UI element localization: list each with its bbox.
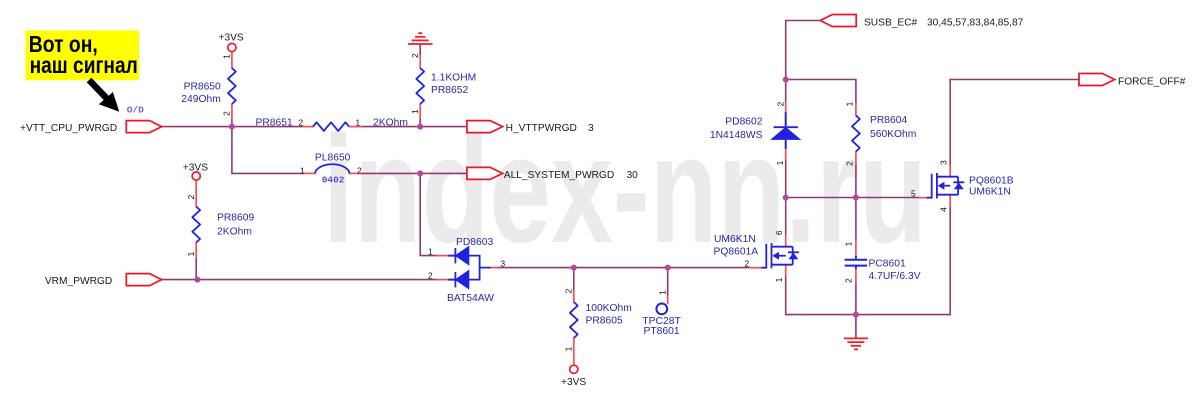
svg-text:PL8650: PL8650 (315, 152, 351, 163)
svg-text:1: 1 (356, 118, 361, 128)
svg-text:PR8651: PR8651 (256, 118, 293, 129)
svg-text:H_VTTPWRGD: H_VTTPWRGD (506, 123, 577, 134)
wire vertical node A down to row2 (232, 127, 304, 174)
svg-text:2: 2 (745, 259, 750, 269)
wire PR8650 bottom stub (231, 119, 233, 127)
resistor R PR8652 body (416, 68, 424, 104)
svg-text:1: 1 (657, 290, 667, 295)
port VRM_PWRGD (126, 274, 161, 286)
node SUSB junction (783, 77, 789, 83)
pin leads PC8601 (855, 241, 857, 256)
svg-text:UM6K1N: UM6K1N (969, 186, 1011, 197)
mosfet PQ8601A body (761, 243, 799, 268)
mosfet PQ8601B body (927, 173, 965, 198)
svg-text:ALL_SYSTEM_PWRGD: ALL_SYSTEM_PWRGD (504, 170, 614, 181)
pin leads PQ8601A (750, 267, 762, 269)
svg-text:2: 2 (410, 53, 420, 58)
svg-text:2KOhm: 2KOhm (217, 227, 252, 238)
testpoint PT8601 circle (656, 304, 667, 315)
resistor R PR8605 body (570, 302, 578, 338)
svg-text:UM6K1N: UM6K1N (714, 234, 756, 245)
svg-text:2: 2 (844, 161, 854, 166)
power +3VS circle (PR8609) (192, 172, 200, 180)
wire PR8604 bottom to node E (855, 164, 857, 198)
svg-text:30,45,57,83,84,85,87: 30,45,57,83,84,85,87 (927, 18, 1024, 29)
svg-text:1.1KOHM: 1.1KOHM (431, 73, 476, 84)
svg-text:SUSB_EC#: SUSB_EC# (864, 18, 918, 29)
svg-text:+3VS: +3VS (561, 377, 586, 388)
pin leads PR8651 (303, 126, 313, 128)
svg-text:1: 1 (410, 109, 420, 114)
svg-text:1: 1 (222, 54, 232, 59)
pin leads PQ8601B (920, 197, 927, 199)
pin leads PR8605 (573, 291, 575, 303)
capacitor PC8601 plates (845, 260, 867, 266)
wire TPC stub (667, 268, 669, 297)
svg-text:2: 2 (186, 194, 196, 199)
wire PQ8601A drain stub (785, 198, 787, 236)
svg-text:+3VS: +3VS (183, 163, 208, 174)
svg-text:2: 2 (776, 101, 786, 106)
svg-text:PC8601: PC8601 (869, 259, 906, 270)
pin lead TPC8601 (667, 297, 669, 304)
pin leads PR8652 (419, 56, 421, 69)
svg-text:1: 1 (844, 101, 854, 106)
wire row2 right of PL8650 (362, 172, 467, 174)
wire PR8652 ground stub (419, 44, 421, 56)
svg-text:PR8652: PR8652 (431, 85, 468, 96)
svg-text:249Ohm: 249Ohm (181, 94, 221, 105)
node row3 junction 1 (571, 265, 577, 271)
port H_VTTPWRGD (467, 121, 503, 133)
svg-text:1: 1 (563, 346, 573, 351)
wire PD8602 anode to node D (785, 159, 787, 198)
svg-text:1: 1 (186, 251, 196, 256)
svg-text:1: 1 (300, 165, 305, 175)
wire PR8605 top stub (573, 268, 575, 291)
svg-text:PQ8601A: PQ8601A (714, 247, 759, 258)
svg-text:PR8609: PR8609 (217, 213, 254, 224)
pin leads PD8603 (437, 255, 448, 257)
svg-text:1N4148WS: 1N4148WS (710, 130, 763, 141)
wire PQ8601A source to bottom rail (786, 276, 951, 315)
wire PC8601 top stub (855, 198, 857, 241)
node VRM junction (194, 277, 200, 283)
wire VRM row (162, 279, 438, 281)
pin leads PD8602 (785, 103, 787, 113)
port ALL_SYSTEM_PWRGD (467, 167, 503, 179)
svg-text:2: 2 (299, 118, 304, 128)
wire PC8601 bottom stub (855, 283, 857, 315)
svg-text:PD8602: PD8602 (725, 117, 762, 128)
pin leads PR8609 (195, 180, 197, 206)
port +VTT_CPU_PWRGD (126, 121, 161, 133)
diode PD8602 1N4148WS (773, 112, 799, 148)
svg-text:30: 30 (627, 170, 639, 181)
wire row gateB (786, 197, 920, 199)
resistor R PR8604 body (852, 116, 860, 152)
dual diode PD8603 (448, 247, 491, 288)
wire PR8609 bottom stub (195, 258, 197, 280)
svg-text:VRM_PWRGD: VRM_PWRGD (45, 276, 112, 287)
resistor R PR8651 body (313, 122, 349, 131)
wire net VTT row1 left (162, 126, 304, 128)
svg-text:2: 2 (428, 271, 433, 281)
svg-text:2: 2 (563, 288, 573, 293)
wire PQ8601B drain vertical (949, 80, 951, 166)
svg-text:5: 5 (911, 189, 916, 199)
svg-text:560KOhm: 560KOhm (870, 129, 916, 140)
power +3VS circle (PR8605) (570, 365, 578, 373)
wire node B down to PD8603 pin1 (420, 173, 437, 255)
wire net VTT row1 right (361, 126, 467, 128)
node C junction (417, 124, 423, 130)
annotation arrow (87, 78, 120, 112)
port FORCE_OFF# (1079, 74, 1115, 86)
annotation yellow note (26, 31, 140, 81)
pin leads PL8650 (304, 172, 315, 174)
svg-text:PD8603: PD8603 (456, 237, 493, 248)
svg-text:2: 2 (357, 165, 362, 175)
svg-text:PQ8601B: PQ8601B (969, 176, 1014, 187)
resistor R PR8650 body (228, 68, 236, 104)
pin leads PR8604 (855, 103, 857, 116)
svg-text:PR8605: PR8605 (586, 316, 623, 327)
svg-text:наш сигнал: наш сигнал (30, 52, 138, 78)
svg-text:3: 3 (938, 160, 948, 165)
svg-text:PR8650: PR8650 (184, 81, 221, 92)
svg-text:4.7UF/6.3V: 4.7UF/6.3V (869, 271, 921, 282)
svg-text:4: 4 (938, 207, 948, 212)
svg-text:100KOhm: 100KOhm (586, 303, 632, 314)
svg-text:BAT54AW: BAT54AW (447, 293, 494, 304)
port SUSB_EC# (820, 15, 856, 27)
ground symbol bottom (844, 338, 868, 349)
svg-text:PR8604: PR8604 (870, 115, 907, 126)
wire FORCE_OFF row (950, 79, 1079, 81)
capacitor PC8601 lead stubs (855, 256, 857, 269)
svg-text:2: 2 (843, 278, 853, 283)
resistor R PR8609 body (192, 207, 200, 243)
node B junction (417, 170, 423, 176)
svg-text:1: 1 (428, 247, 433, 257)
pin leads PR8650 (231, 52, 233, 68)
wire SUSB vertical and horizontal (786, 21, 821, 80)
wire PQ8601B source vertical (949, 206, 951, 315)
svg-text:1: 1 (774, 277, 784, 282)
wire top branch to PR8604 (786, 80, 856, 104)
node D junction (783, 195, 789, 201)
svg-text:+VTT_CPU_PWRGD: +VTT_CPU_PWRGD (20, 123, 117, 134)
svg-text:2: 2 (222, 111, 232, 116)
svg-text:PT8601: PT8601 (644, 326, 680, 337)
svg-text:2KOhm: 2KOhm (373, 118, 408, 129)
svg-text:0402: 0402 (322, 174, 345, 185)
watermark (323, 113, 927, 266)
wire PD8602 top stub (785, 80, 787, 104)
svg-text:6: 6 (774, 230, 784, 235)
node A junction (229, 124, 235, 130)
wire PR8652 bottom stub (419, 118, 421, 127)
ground symbol top (PR8652) (408, 33, 433, 44)
node row3 junction 2 (665, 265, 671, 271)
svg-text:3: 3 (588, 123, 594, 134)
wire row3 diode output (497, 267, 750, 269)
node E junction (853, 195, 859, 201)
node GND junction (853, 312, 859, 318)
wire ground stub bottom (855, 315, 857, 338)
svg-text:1: 1 (843, 241, 853, 246)
svg-text:3: 3 (501, 259, 506, 269)
svg-text:+3VS: +3VS (219, 33, 244, 44)
svg-text:1: 1 (775, 160, 785, 165)
inductor PL8650 body (315, 164, 350, 173)
svg-text:O/D: O/D (127, 104, 144, 115)
svg-text:FORCE_OFF#: FORCE_OFF# (1118, 77, 1186, 88)
power +3VS circle (PR8650) (228, 43, 236, 51)
